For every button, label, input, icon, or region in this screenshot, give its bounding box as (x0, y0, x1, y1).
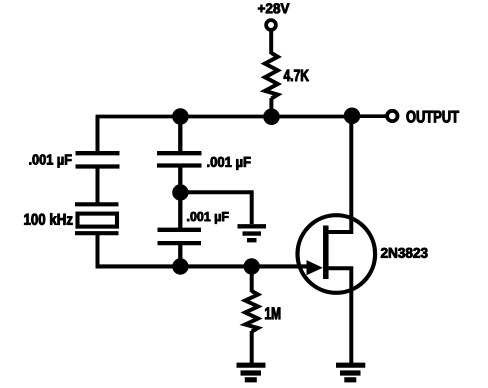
C1 value label .001 uF (29, 154, 71, 167)
resistor R2 1M (245, 291, 258, 332)
output terminal (387, 111, 397, 121)
wire: crystal Y1 to bottom rail corner (98, 233, 100, 266)
capacitor C3 .001uF (middle bottom) (158, 230, 202, 243)
+28V power terminal (266, 20, 276, 30)
wire: C1 to crystal Y1 (96, 167, 100, 206)
R2 value label 1M (265, 307, 280, 319)
wire: middle branch top rail to C2 (178, 116, 182, 153)
top rail wire (96, 115, 353, 119)
Q1 label 2N3823 (381, 248, 428, 258)
node: top rail / R1 (263, 108, 280, 125)
node: top rail / C2 (172, 108, 189, 125)
ground (Q1 source) (336, 365, 365, 380)
C2 value label .001 uF (187, 212, 228, 224)
Q1 drain lead and wire to top rail node (326, 115, 351, 232)
C3 value label .001 uF (24, 213, 72, 225)
bottom rail wire (gate net) (96, 264, 309, 268)
Q1 source lead and wire to ground (326, 268, 351, 364)
wire: C3 to bottom rail (178, 243, 182, 267)
wire: node A to bypass ground (180, 192, 251, 224)
Y1 value label 100 kHz (207, 157, 250, 170)
wire: gate node to resistor R2 (250, 267, 254, 293)
OUTPUT label (407, 111, 459, 123)
wire: resistor R2 to ground (250, 331, 254, 364)
transistor Q1 2N3823 (N-channel JFET) body (298, 215, 376, 293)
wire: +28V terminal to resistor R1 (269, 31, 273, 54)
Q1 channel bar (323, 226, 329, 280)
crystal Y1 100 kHz (75, 204, 119, 233)
resistor R1 4.7K (265, 53, 278, 99)
capacitor C2 .001uF (middle top) (157, 153, 202, 165)
node A: junction C2/C3/bypass (172, 184, 188, 200)
capacitor C1 .001uF (left) (76, 153, 120, 166)
R1 value label 4.7K (284, 70, 309, 81)
Q1 gate arrowhead (307, 260, 323, 275)
wire: C2 to node A (178, 166, 182, 195)
wire: output stub (352, 114, 387, 118)
+28V label (258, 3, 289, 13)
ground (R2) (237, 365, 266, 380)
wire: left branch from top rail to C1 (96, 116, 100, 153)
ground (bypass) (238, 226, 267, 240)
wire: resistor R1 to top rail (269, 98, 273, 117)
node: bottom rail / C3 (172, 258, 188, 274)
node: bottom rail / R2 gate (244, 258, 260, 274)
wire: node A to C3 (178, 193, 182, 231)
node: top rail / drain / output (344, 108, 361, 125)
